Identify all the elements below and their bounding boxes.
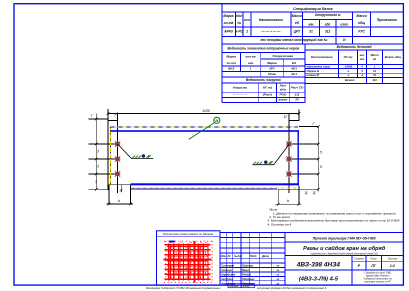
beam right edge line [298, 109, 300, 120]
svg-text:1. Данные по нагрузкам принима: 1. Данные по нагрузкам принимать по указ… [273, 211, 396, 215]
red mesh grid horizontals [164, 245, 212, 279]
centerline dashed vertical left [109, 127, 111, 186]
svg-text:исп: исп [244, 18, 250, 22]
weld marks right green [254, 161, 273, 164]
svg-text:ЦРТ: ЦРТ [294, 30, 301, 34]
beam right blue vertical [298, 130, 299, 185]
svg-text:Апробовал: Апробовал [220, 274, 235, 277]
svg-text:1: 1 [250, 67, 252, 71]
svg-text:3: 3 [95, 180, 97, 184]
title block top line [220, 231, 403, 233]
svg-text:Масса: Масса [292, 14, 302, 18]
svg-text:1200: 1200 [202, 109, 210, 113]
svg-text:Дата: Дата [261, 255, 269, 258]
svg-text:эл-та: эл-та [227, 61, 236, 65]
svg-text:Копир: Копир [243, 286, 250, 288]
svg-text:Составил: Составил [221, 265, 234, 268]
svg-text:вес неокраш метал конструкций: вес неокраш метал конструкций зав № [261, 38, 328, 42]
small top-left dimension [108, 120, 118, 122]
svg-text:эл-та: эл-та [224, 21, 234, 25]
svg-text:Либилов: Либилов [241, 265, 253, 268]
table A Спецификация балок grid [222, 4, 404, 44]
bolts left column [114, 141, 120, 177]
svg-text:№: № [237, 21, 241, 25]
bolt column line left [117, 112, 119, 193]
svg-text:Отгрузочная: Отгрузочная [272, 54, 293, 58]
svg-text:абс: абс [325, 23, 331, 27]
red mesh dotted perimeter [164, 241, 213, 283]
svg-text:4ВЗ-398 4НЗ4: 4ВЗ-398 4НЗ4 [296, 262, 341, 269]
table A texts [223, 7, 397, 42]
beam top flange blue line [110, 130, 299, 132]
svg-text:Подп: Подп [250, 255, 257, 258]
svg-text:Обаловал: Обаловал [242, 278, 255, 281]
svg-text:Ведомость элементов отправочны: Ведомость элементов отправочных марок [227, 47, 299, 51]
organization cell lines [363, 271, 392, 283]
svg-text:Всего общ: Всего общ [385, 55, 401, 59]
table C Ведомость нагрузок grid [222, 83, 305, 102]
beam bottom flange thick blue line [131, 183, 299, 185]
svg-text:шт: шт [248, 61, 254, 65]
table C texts [233, 78, 304, 102]
svg-text:Лист: Лист [369, 258, 376, 261]
svg-text:обрешетка заказ: обрешетка заказ [307, 65, 331, 69]
bottom thin blue line [131, 188, 277, 190]
svg-text:общ: общ [358, 21, 365, 25]
weld dot right [264, 161, 267, 164]
svg-text:Соченил: Соченил [221, 269, 232, 272]
svg-text:Интермаш Сибпроект ТУ-ВМ обозн: Интермаш Сибпроект ТУ-ВМ обозначение док… [146, 286, 221, 290]
bottom yellow dashed line [131, 187, 296, 189]
red mesh box [157, 231, 221, 285]
svg-text:Марка: Марка [267, 61, 277, 65]
right support pad [278, 186, 299, 204]
bolt column line right [288, 113, 290, 193]
blue mark on mesh [169, 241, 175, 243]
svg-text:b: b [287, 199, 289, 203]
bolts right column [286, 141, 292, 177]
left support pad [109, 185, 131, 204]
red mesh grid verticals [169, 241, 208, 283]
svg-text:Лс: Лс [227, 255, 232, 258]
svg-text:Марка: Марка [226, 55, 236, 59]
svg-text:Расчетная схема связей по балк: Расчетная схема связей по балкам [163, 232, 213, 236]
svg-text:Кол: Кол [236, 14, 242, 18]
title block small texts [220, 255, 280, 286]
beam left edge line [107, 109, 109, 190]
svg-text:. . . ... . .. . . . .: . . . ... . .. . . . . .. [154, 283, 172, 286]
svg-text:Проект тральера ГМ4 МУ-05-ГМ: Проект тральера ГМ4 МУ-05-ГМб [313, 236, 377, 240]
svg-text:Изм: Изм [221, 255, 226, 258]
red mesh box title line [157, 235, 221, 237]
svg-text:ФУЗ: ФУЗ [228, 67, 234, 71]
svg-text:Масса: Масса [371, 53, 380, 57]
svg-text:Расч: Расч [280, 84, 287, 88]
svg-text:Спецификация балок: Спецификация балок [293, 7, 334, 11]
table D Ведомость деталей grid [305, 50, 404, 83]
svg-text:311: 311 [295, 93, 300, 97]
small top-right dimension [289, 120, 299, 122]
svg-text:Робкий: Робкий [242, 274, 252, 277]
svg-text:Наименование: Наименование [259, 18, 283, 22]
right dimension column [278, 127, 318, 192]
svg-text:b: b [118, 199, 120, 203]
svg-text:Листов: Листов [387, 258, 398, 261]
svg-text:планка М: планка М [307, 73, 320, 77]
svg-text:монтажу констр №-47: монтажу констр №-47 [365, 280, 392, 283]
svg-text:111: 111 [372, 78, 377, 82]
svg-text:Ведомость нагрузок: Ведомость нагрузок [246, 78, 281, 82]
table D texts [307, 45, 402, 82]
svg-text:Ед: Ед [292, 61, 296, 65]
svg-text:~.: ~. [273, 265, 275, 268]
svg-text:4. Остальн см 4: 4. Остальн см 4 [267, 222, 291, 226]
svg-text:-ч: -ч [347, 70, 350, 73]
weld dot left [142, 154, 145, 157]
svg-text:42.1: 42.1 [290, 72, 297, 76]
beam top dimension line [108, 113, 299, 115]
svg-text:Масса: Масса [357, 14, 367, 18]
svg-text:(4ВЗ-3-Л9) 4-5: (4ВЗ-3-Л9) 4-5 [299, 276, 339, 282]
svg-text:АР4З: АР4З [223, 30, 233, 34]
dimension labels [91, 109, 322, 203]
svg-text:1: 1 [246, 30, 248, 34]
svg-text:41: 41 [372, 69, 376, 73]
right pad dimension b [276, 203, 302, 205]
svg-text:Ведомость деталей: Ведомость деталей [337, 45, 372, 49]
svg-text:кол: кол [360, 54, 365, 57]
svg-text:Обрезь В: Обрезь В [307, 69, 320, 73]
notes text block [267, 208, 399, 227]
svg-text:Осев: Осев [268, 72, 276, 76]
svg-text:--- --- --- ---: --- --- --- --- [233, 93, 248, 97]
svg-text:3!!: 3!! [295, 98, 299, 102]
svg-text:Всего:: Всего: [345, 78, 355, 82]
svg-text:311: 311 [325, 30, 330, 34]
svg-text:(Расч): (Расч) [263, 93, 272, 97]
svg-text:ЛГ: ЛГ [370, 264, 377, 268]
title block left grid [220, 232, 285, 285]
weld marks left green [133, 155, 151, 158]
svg-text:Расч СО: Расч СО [291, 86, 304, 90]
svg-text:Рамы и свйдов кран на обряд: Рамы и свйдов кран на обряд [303, 245, 386, 252]
red mesh scattered dots [170, 242, 206, 278]
table B Ведомость элементов отправочных марок grid [222, 44, 305, 102]
balloon leader green [189, 123, 215, 140]
svg-text:1:2: 1:2 [390, 264, 396, 268]
svg-text:копировал формат А3 без измене: копировал формат А3 без изменений по сер… [257, 286, 327, 290]
svg-text:31: 31 [309, 30, 313, 34]
balloon circle [214, 117, 220, 123]
svg-text:кН/м: кН/м [280, 88, 286, 92]
svg-text:Вакул: Вакул [242, 269, 250, 272]
left pad dimension b [107, 203, 134, 205]
svg-text:Нагрузка: Нагрузка [233, 86, 247, 90]
dimension slash ticks [95, 112, 320, 190]
svg-text:РОО: РОО [279, 93, 286, 97]
svg-text:--- --- -- --- ---: --- --- -- --- --- [261, 30, 280, 34]
svg-text:Марка: Марка [223, 14, 233, 18]
svg-text:НГ-т(: НГ-т( [344, 55, 354, 59]
svg-text:кол-во: кол-во [246, 55, 256, 59]
svg-text:ед: ед [295, 21, 299, 25]
svg-text:5: 5 [320, 165, 322, 169]
svg-text:изол: изол [340, 23, 348, 27]
weld leader left [118, 144, 154, 159]
stage cells [354, 258, 397, 268]
centerline dashed blue-yellow top [111, 126, 299, 128]
left dimension column [89, 114, 118, 190]
svg-text:3: 3 [97, 150, 99, 154]
svg-text:х-РО: х-РО [234, 30, 243, 34]
svg-text:-ч: -ч [347, 74, 350, 77]
table B texts [226, 47, 299, 77]
weld leader right [253, 145, 290, 165]
svg-text:Стадия: Стадия [354, 258, 364, 261]
svg-text:диобудил: диобудил [221, 278, 234, 281]
svg-text:Расположение: Расположение [311, 55, 333, 59]
svg-text:шт: шт [360, 58, 365, 61]
svg-text:НГ-т(: НГ-т( [263, 86, 273, 90]
svg-text:№ док: № док [234, 255, 243, 258]
svg-text:41: 41 [372, 73, 376, 77]
svg-text:РУС: РУС [358, 30, 365, 34]
svg-text:всего: всего [279, 98, 288, 102]
svg-text:3: 3 [97, 165, 99, 169]
svg-text:Отгрузочная м: Отгрузочная м [315, 13, 341, 17]
svg-text:2Р1: 2Р1 [268, 67, 275, 71]
svg-text:Примечание: Примечание [377, 18, 397, 22]
svg-text:мм: мм [309, 23, 314, 27]
svg-text:4О1: 4О1 [290, 67, 297, 71]
title block right grid [285, 242, 404, 285]
svg-text:5: 5 [320, 151, 322, 155]
svg-text:ед: ед [373, 57, 376, 61]
bottom strip small boxes [228, 284, 241, 288]
svg-text:-120х8: -120х8 [344, 65, 353, 69]
left pad inner tick [120, 185, 122, 192]
svg-text:м: м [215, 118, 218, 123]
